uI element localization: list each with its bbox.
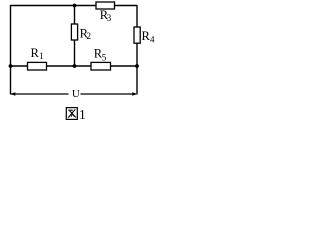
wire U dimension line left segment <box>11 93 69 95</box>
svg-text:1: 1 <box>39 51 44 61</box>
resistor R2 <box>71 24 77 40</box>
wire right vertical <box>136 5 138 95</box>
arrowhead right of U dimension <box>132 92 137 96</box>
svg-text:5: 5 <box>102 53 107 63</box>
junction right node <box>135 64 139 68</box>
junction middle node <box>73 64 77 68</box>
caption figure glyph 图 (drawn) <box>66 108 77 120</box>
wire middle branch (R1-R5 rail) <box>11 65 138 67</box>
wire top (node top rail) <box>11 5 138 7</box>
junction top node <box>73 4 77 8</box>
svg-text:U: U <box>72 88 80 100</box>
svg-text:R: R <box>31 46 40 60</box>
resistor R4 <box>134 27 140 43</box>
resistor R3 <box>96 2 115 9</box>
junction left node <box>9 64 13 68</box>
wire R2 branch vertical <box>74 6 76 67</box>
wire U dimension line right segment <box>81 93 137 95</box>
resistor R1 <box>28 62 47 70</box>
arrowhead left of U dimension <box>11 92 16 96</box>
svg-text:4: 4 <box>150 35 155 45</box>
svg-text:1: 1 <box>79 107 86 122</box>
svg-text:3: 3 <box>107 13 112 23</box>
resistor R5 <box>91 62 111 70</box>
svg-text:2: 2 <box>87 31 92 41</box>
wire left vertical <box>10 5 12 95</box>
